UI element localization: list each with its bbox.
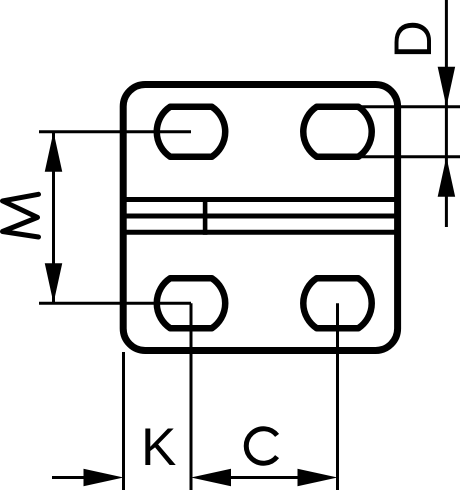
- body outline (rounded plate): [123, 85, 397, 351]
- label M: [3, 194, 39, 237]
- D extension line bottom: [345, 155, 460, 158]
- slot bottom-left: [157, 278, 225, 328]
- D dimension line: [445, 0, 448, 227]
- M extension line top: [39, 130, 191, 133]
- groove line 2: [121, 214, 401, 219]
- C extension line right: [336, 303, 339, 490]
- K extension line right: [190, 303, 193, 490]
- slot top-right: [303, 107, 371, 157]
- D arrowhead down: [438, 67, 456, 107]
- D extension line top: [345, 105, 460, 108]
- K arrowhead right: [84, 469, 124, 487]
- K dimension tail line: [52, 476, 84, 479]
- C arrowhead right: [298, 469, 338, 487]
- groove line 3: [121, 230, 401, 235]
- groove divider: [203, 197, 208, 235]
- M dimension line: [52, 132, 55, 304]
- M arrowhead up: [45, 132, 63, 172]
- label C: [246, 429, 277, 464]
- C dimension line: [231, 476, 298, 479]
- svg-text:D: D: [384, 20, 443, 58]
- slot top-left: [157, 107, 225, 157]
- svg-text:K: K: [141, 418, 176, 477]
- slot bottom-right: [303, 278, 371, 328]
- C arrowhead left: [191, 469, 231, 487]
- M extension line bottom: [39, 302, 191, 305]
- groove line 1: [121, 197, 401, 202]
- K extension line left: [122, 352, 125, 490]
- D arrowhead up: [438, 157, 456, 197]
- M arrowhead down: [45, 263, 63, 303]
